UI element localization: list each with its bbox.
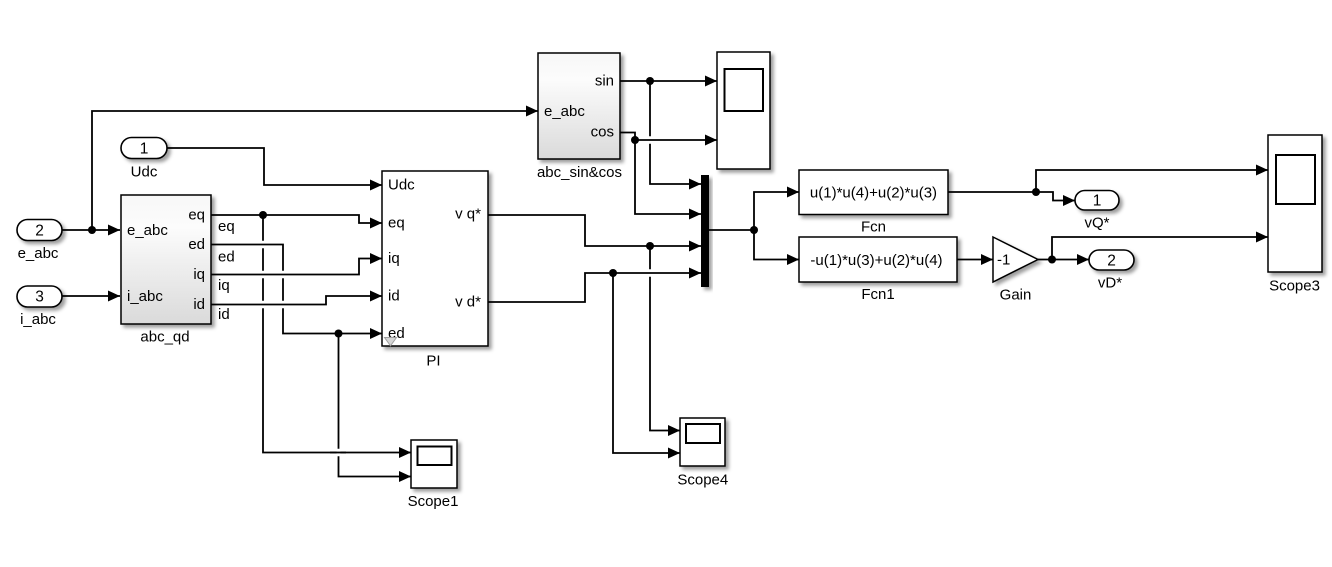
svg-text:abc_sin&cos: abc_sin&cos [537,164,622,181]
svg-text:ed: ed [188,236,205,253]
svg-text:2: 2 [1107,253,1116,270]
svg-text:vQ*: vQ* [1084,215,1109,232]
svg-text:sin: sin [595,73,614,90]
svg-text:Fcn1: Fcn1 [861,286,894,303]
svg-text:id: id [193,296,205,313]
svg-text:e_abc: e_abc [127,222,168,239]
svg-text:u(1)*u(4)+u(2)*u(3): u(1)*u(4)+u(2)*u(3) [810,185,937,202]
svg-text:Udc: Udc [388,177,415,194]
svg-text:id: id [218,306,230,323]
svg-text:i_abc: i_abc [20,311,56,328]
svg-text:PI: PI [426,353,440,370]
svg-text:i_abc: i_abc [127,288,163,305]
svg-text:1: 1 [140,141,149,158]
svg-text:Fcn: Fcn [861,219,886,236]
svg-text:Scope4: Scope4 [677,471,728,488]
svg-text:3: 3 [35,289,44,306]
svg-text:-u(1)*u(3)+u(2)*u(4): -u(1)*u(3)+u(2)*u(4) [810,252,942,269]
svg-text:eq: eq [188,207,205,224]
svg-text:id: id [388,288,400,305]
svg-text:e_abc: e_abc [544,103,585,120]
svg-text:vD*: vD* [1098,275,1122,292]
svg-text:Scope1: Scope1 [408,493,459,510]
svg-text:Udc: Udc [131,164,158,181]
svg-text:iq: iq [218,277,230,294]
svg-text:Gain: Gain [1000,287,1032,304]
svg-text:iq: iq [388,250,400,267]
svg-text:eq: eq [388,215,405,232]
svg-text:1: 1 [1093,193,1102,210]
svg-text:2: 2 [35,223,44,240]
svg-text:abc_qd: abc_qd [140,329,189,346]
svg-text:ed: ed [218,249,235,266]
svg-text:Scope3: Scope3 [1269,277,1320,294]
svg-text:v q*: v q* [455,206,481,223]
svg-text:e_abc: e_abc [18,245,59,262]
svg-text:eq: eq [218,218,235,235]
svg-text:cos: cos [591,124,614,141]
svg-text:iq: iq [193,266,205,283]
svg-text:v d*: v d* [455,294,481,311]
svg-text:-1: -1 [997,252,1010,269]
